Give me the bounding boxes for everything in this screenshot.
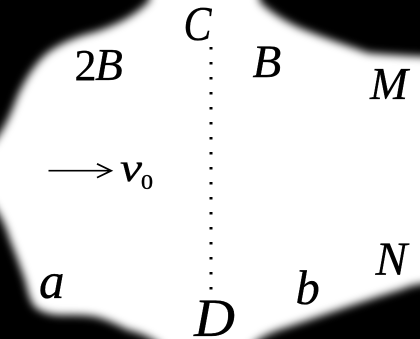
shadow blob bottom-left [0,200,166,339]
arrow v0 shaft [49,170,110,172]
svg-text:0: 0 [141,170,153,194]
svg-text:C: C [184,0,213,51]
svg-text:v: v [120,145,142,190]
svg-text:D: D [193,288,235,339]
svg-text:2: 2 [75,41,97,90]
svg-text:N: N [375,234,410,286]
shadow blob top-right [258,0,420,57]
svg-text:B: B [95,39,123,90]
svg-text:b: b [296,262,320,315]
dotted line C-D [210,47,213,290]
arrow v0 head [97,164,111,178]
svg-text:M: M [369,58,410,109]
svg-text:B: B [253,36,282,88]
svg-text:a: a [39,254,65,310]
shadow blob top-left [0,0,150,148]
shadow blob bottom-right [248,283,420,339]
